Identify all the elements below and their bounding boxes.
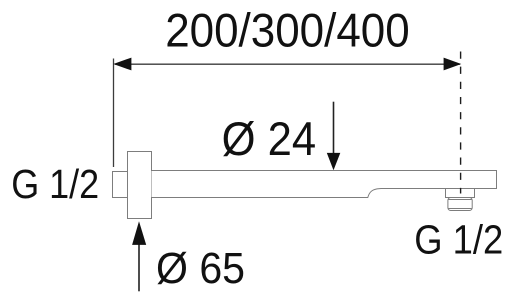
arrowhead left (113, 58, 131, 71)
svg-text:Ø 65: Ø 65 (156, 245, 245, 293)
centerline dashed (460, 52, 462, 194)
svg-text:200/300/400: 200/300/400 (165, 4, 409, 57)
svg-text:G 1/2: G 1/2 (414, 216, 503, 262)
svg-text:G 1/2: G 1/2 (11, 161, 99, 207)
wall stub (113, 172, 128, 198)
dimension line (115, 63, 460, 65)
arrow up shaft (138, 244, 140, 291)
arrowhead right (444, 58, 462, 71)
flange (128, 152, 152, 219)
arrow down head (327, 153, 341, 170)
extension line left (113, 59, 115, 168)
svg-text:Ø 24: Ø 24 (222, 112, 317, 165)
outlet thread body (448, 198, 472, 211)
thread chamfer top (448, 199, 471, 201)
arm tube (152, 171, 497, 198)
arrow up head (132, 221, 146, 245)
thread chamfer bottom (448, 208, 471, 210)
arrow down shaft (333, 102, 335, 154)
outlet collar (446, 189, 475, 198)
